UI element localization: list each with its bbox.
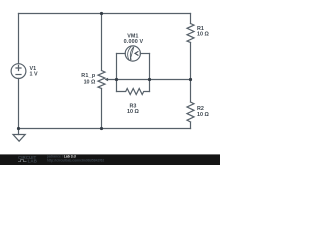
- ground triangle: [13, 135, 25, 142]
- resistor R1 zigzag: [187, 24, 194, 43]
- resistor R3 zigzag: [117, 89, 150, 95]
- voltage source V1 circle: [11, 64, 26, 79]
- V1 minus sign: [16, 74, 21, 76]
- voltmeter needle: [130, 47, 134, 61]
- junction node right branch: [189, 78, 192, 81]
- svg-text:10 Ω: 10 Ω: [84, 80, 96, 86]
- junction node wiper left: [115, 78, 118, 81]
- svg-text:10 Ω: 10 Ω: [197, 32, 209, 38]
- voltmeter inner arc 2: [130, 47, 133, 60]
- wire VM loop right vertical: [149, 54, 151, 92]
- junction node bottom of middle branch: [100, 127, 103, 130]
- wire VM loop left vertical: [116, 54, 118, 92]
- voltmeter arrow glyph: [135, 51, 138, 55]
- junction node wiper right: [148, 78, 151, 81]
- footer bar: [0, 154, 220, 165]
- wire left vertical lower: [18, 78, 20, 128]
- wire wiper to right branch: [108, 79, 191, 81]
- potentiometer R1_p zigzag: [98, 71, 105, 89]
- wire left vertical upper: [18, 14, 20, 64]
- wire right vertical top: [190, 14, 192, 24]
- svg-text:10 Ω: 10 Ω: [197, 112, 209, 118]
- wire right vertical middle: [190, 43, 192, 103]
- svg-text:10 Ω: 10 Ω: [127, 109, 139, 115]
- wire middle branch lower: [101, 89, 103, 129]
- footer logo waveform: [18, 160, 27, 162]
- voltmeter inner arc 1: [128, 47, 132, 60]
- svg-text:http://circuitlab.com/c6n98d58: http://circuitlab.com/c6n98d5842f62: [47, 158, 105, 162]
- svg-text:1 V: 1 V: [30, 71, 38, 77]
- V1 plus sign: [16, 66, 21, 71]
- junction node bottom left ground: [17, 127, 20, 130]
- wire middle branch upper: [101, 14, 103, 71]
- wire VM loop top right segment: [140, 53, 149, 55]
- svg-text:0.000 V: 0.000 V: [124, 39, 144, 45]
- wire top horizontal: [19, 13, 191, 15]
- junction node top of middle branch: [100, 12, 103, 15]
- ground stub: [18, 129, 20, 135]
- svg-text:R1_p: R1_p: [81, 73, 96, 79]
- wire right vertical bottom: [190, 122, 192, 129]
- svg-text:LAB: LAB: [28, 159, 38, 164]
- voltmeter VM1 circle: [125, 46, 140, 61]
- potentiometer wiper arrow: [105, 78, 109, 81]
- resistor R2 zigzag: [187, 102, 194, 122]
- wire bottom horizontal: [19, 128, 191, 130]
- wire VM loop top left segment: [117, 53, 126, 55]
